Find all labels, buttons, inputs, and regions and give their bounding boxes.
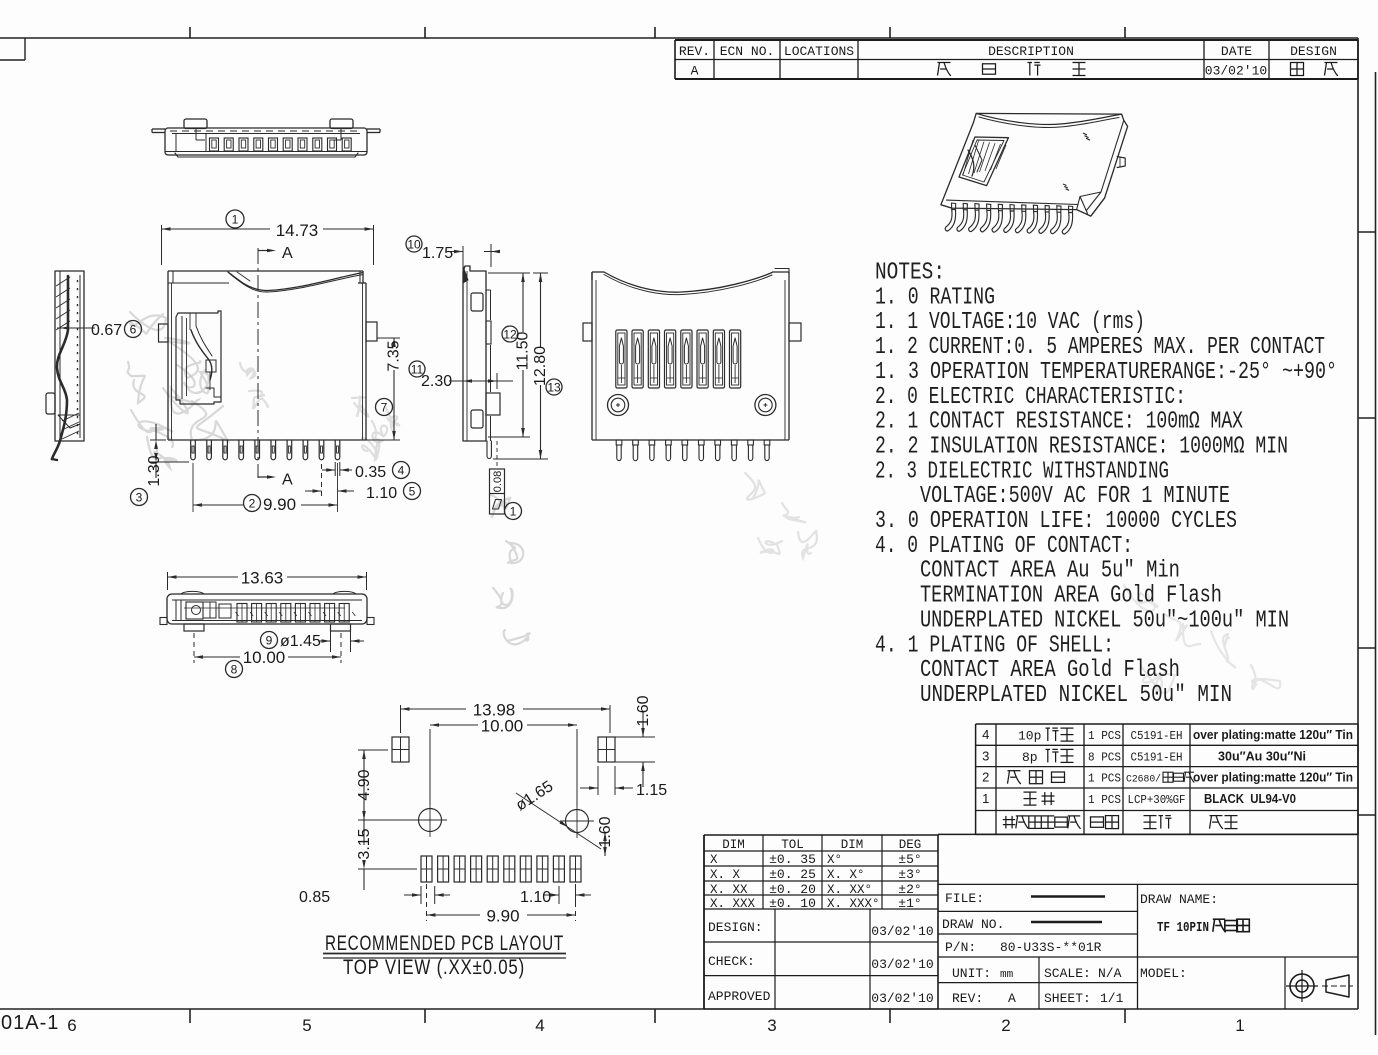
svg-text:03/02'10: 03/02'10 <box>871 957 933 972</box>
svg-text:1.10: 1.10 <box>366 485 397 502</box>
svg-text:SHEET:: SHEET: <box>1044 991 1091 1006</box>
svg-text:10.00: 10.00 <box>481 717 524 736</box>
svg-text:C2680/: C2680/ <box>1126 774 1161 786</box>
svg-text:±0. 25: ±0. 25 <box>769 867 816 882</box>
svg-text:8p: 8p <box>1022 750 1038 765</box>
svg-text:7: 7 <box>381 400 388 414</box>
svg-text:03/02'10: 03/02'10 <box>871 991 933 1006</box>
svg-text:7.35: 7.35 <box>386 340 403 371</box>
svg-text:2. 2 INSULATION RESISTANCE: 10: 2. 2 INSULATION RESISTANCE: 1000MΩ MIN <box>875 433 1288 460</box>
svg-text:0.67: 0.67 <box>91 322 122 339</box>
svg-text:2: 2 <box>1001 1016 1010 1035</box>
svg-text:6: 6 <box>130 322 137 336</box>
svg-text:13.63: 13.63 <box>241 569 284 588</box>
svg-text:9: 9 <box>266 633 273 647</box>
svg-text:8 PCS: 8 PCS <box>1088 750 1121 764</box>
svg-text:CONTACT AREA Gold Flash: CONTACT AREA Gold Flash <box>920 657 1180 684</box>
svg-text:3: 3 <box>136 490 143 504</box>
svg-text:80-U33S-**01R: 80-U33S-**01R <box>1000 940 1102 955</box>
svg-text:30u″Au 30u″Ni: 30u″Au 30u″Ni <box>1218 749 1306 763</box>
svg-text:1: 1 <box>510 504 517 518</box>
svg-text:1. 3 OPERATION TEMPERATURERANG: 1. 3 OPERATION TEMPERATURERANGE:-25° ~+9… <box>875 358 1337 385</box>
svg-text:2. 0 ELECTRIC CHARACTERISTIC:: 2. 0 ELECTRIC CHARACTERISTIC: <box>875 383 1186 410</box>
svg-text:X. X: X. X <box>710 868 741 882</box>
svg-text:1.10: 1.10 <box>520 889 551 906</box>
svg-text:4: 4 <box>398 463 405 477</box>
svg-text:UNDERPLATED NICKEL 50u″ MIN: UNDERPLATED NICKEL 50u″ MIN <box>920 682 1232 709</box>
svg-text:REV.: REV. <box>679 44 710 59</box>
svg-text:1 PCS: 1 PCS <box>1088 793 1121 807</box>
svg-text:1. 2 CURRENT:0. 5 AMPERES MAX.: 1. 2 CURRENT:0. 5 AMPERES MAX. PER CONTA… <box>875 334 1325 361</box>
svg-text:±0. 20: ±0. 20 <box>769 882 816 897</box>
svg-text:UNDERPLATED NICKEL 50u″~100u″: UNDERPLATED NICKEL 50u″~100u″ MIN <box>920 607 1289 634</box>
svg-text:1: 1 <box>982 791 989 806</box>
svg-text:1: 1 <box>232 212 239 226</box>
svg-text:X°: X° <box>827 853 842 867</box>
svg-text:03/02'10: 03/02'10 <box>1205 64 1267 79</box>
svg-text:RECOMMENDED PCB LAYOUT: RECOMMENDED PCB LAYOUT <box>325 932 564 955</box>
svg-text:3.15: 3.15 <box>356 828 373 859</box>
svg-text:1/1: 1/1 <box>1100 991 1124 1006</box>
svg-text:2. 1 CONTACT RESISTANCE: 100mΩ: 2. 1 CONTACT RESISTANCE: 100mΩ MAX <box>875 408 1243 435</box>
svg-text:X. X°: X. X° <box>827 868 865 882</box>
svg-text:1 PCS: 1 PCS <box>1088 772 1121 786</box>
svg-text:9.90: 9.90 <box>486 907 519 926</box>
svg-text:14.73: 14.73 <box>276 221 319 240</box>
svg-text:4. 1 PLATING OF SHELL:: 4. 1 PLATING OF SHELL: <box>875 632 1114 659</box>
svg-text:LOCATIONS: LOCATIONS <box>784 44 854 59</box>
svg-text:UNIT:: UNIT: <box>952 966 991 981</box>
svg-text:1.75: 1.75 <box>422 245 453 262</box>
svg-text:A: A <box>282 472 293 489</box>
svg-text:4.90: 4.90 <box>356 769 373 800</box>
svg-text:1.60: 1.60 <box>597 816 614 847</box>
svg-text:DESIGN:: DESIGN: <box>708 920 763 935</box>
svg-text:X. XX°: X. XX° <box>827 883 872 897</box>
svg-text:over plating:matte 120u″ Tin: over plating:matte 120u″ Tin <box>1193 771 1353 785</box>
svg-text:VOLTAGE:500V AC FOR 1 MINUTE: VOLTAGE:500V AC FOR 1 MINUTE <box>920 483 1230 510</box>
svg-text:2.30: 2.30 <box>421 373 452 390</box>
svg-text:0.85: 0.85 <box>299 889 330 906</box>
svg-text:1: 1 <box>1235 1016 1244 1035</box>
svg-text:CHECK:: CHECK: <box>708 954 755 969</box>
svg-text:over plating:matte 120u″ Tin: over plating:matte 120u″ Tin <box>1193 728 1353 742</box>
svg-text:C5191-EH: C5191-EH <box>1131 750 1183 764</box>
svg-text:DIM: DIM <box>722 838 745 852</box>
svg-text:DIM: DIM <box>841 838 864 852</box>
svg-text:X: X <box>710 853 718 867</box>
svg-text:11.50: 11.50 <box>515 331 532 370</box>
svg-text:6: 6 <box>67 1016 76 1035</box>
svg-text:4: 4 <box>535 1016 544 1035</box>
svg-text:LCP+30%GF: LCP+30%GF <box>1128 793 1186 807</box>
svg-text:±1°: ±1° <box>898 896 921 911</box>
svg-text:TF 10PIN: TF 10PIN <box>1157 920 1209 936</box>
svg-text:13: 13 <box>547 380 561 394</box>
svg-text:1.30: 1.30 <box>146 455 163 486</box>
svg-text:8: 8 <box>231 662 238 676</box>
svg-text:TOL: TOL <box>781 838 804 852</box>
svg-text:P/N:: P/N: <box>945 940 976 955</box>
svg-text:3: 3 <box>982 748 989 763</box>
svg-text:mm: mm <box>1000 969 1014 981</box>
svg-text:X. XXX: X. XXX <box>710 897 756 911</box>
svg-text:3. 0 OPERATION LIFE: 10000 CYC: 3. 0 OPERATION LIFE: 10000 CYCLES <box>875 508 1237 535</box>
svg-text:10: 10 <box>407 237 421 251</box>
svg-text:A: A <box>691 64 699 79</box>
svg-text:X. XXX°: X. XXX° <box>827 897 880 911</box>
svg-text:BLACK UL94-V0: BLACK UL94-V0 <box>1204 792 1296 806</box>
svg-text:10.00: 10.00 <box>243 648 286 667</box>
svg-text:A: A <box>1008 991 1016 1006</box>
svg-text:DESIGN: DESIGN <box>1290 44 1337 59</box>
svg-text:CONTACT AREA Au 5u″ Min: CONTACT AREA Au 5u″ Min <box>920 557 1180 584</box>
svg-text:FILE:: FILE: <box>945 891 984 906</box>
svg-text:03/02'10: 03/02'10 <box>871 924 933 939</box>
svg-text:2: 2 <box>249 496 256 510</box>
svg-text:4: 4 <box>982 727 989 742</box>
svg-text:9.90: 9.90 <box>263 495 296 514</box>
svg-text:2: 2 <box>982 770 989 785</box>
svg-text:DEG: DEG <box>899 838 922 852</box>
svg-text:DESCRIPTION: DESCRIPTION <box>988 44 1074 59</box>
svg-text:C5191-EH: C5191-EH <box>1131 729 1183 743</box>
svg-text:0.35: 0.35 <box>355 464 386 481</box>
svg-text:X. XX: X. XX <box>710 883 748 897</box>
svg-text:NOTES:: NOTES: <box>875 259 945 286</box>
svg-text:DRAW NO.: DRAW NO. <box>942 917 1004 932</box>
svg-text:2. 3 DIELECTRIC WITHSTANDING: 2. 3 DIELECTRIC WITHSTANDING <box>875 458 1169 485</box>
svg-text:DATE: DATE <box>1221 44 1252 59</box>
svg-text:10p: 10p <box>1018 729 1041 744</box>
svg-text:SCALE:: SCALE: <box>1044 966 1091 981</box>
svg-text:A: A <box>282 245 293 262</box>
svg-text:4. 0 PLATING OF CONTACT:: 4. 0 PLATING OF CONTACT: <box>875 532 1133 559</box>
svg-text:REV:: REV: <box>952 991 983 1006</box>
svg-text:DRAW NAME:: DRAW NAME: <box>1140 892 1218 907</box>
svg-text:TERMINATION AREA Gold Flash: TERMINATION AREA Gold Flash <box>920 582 1222 609</box>
svg-text:1 PCS: 1 PCS <box>1088 729 1121 743</box>
svg-text:±0. 35: ±0. 35 <box>769 852 816 867</box>
svg-text:01A-1: 01A-1 <box>1 1012 59 1034</box>
svg-text:±3°: ±3° <box>898 867 921 882</box>
svg-text:1.60: 1.60 <box>635 695 652 726</box>
svg-text:ECN NO.: ECN NO. <box>720 44 775 59</box>
svg-text:APPROVED: APPROVED <box>708 989 771 1004</box>
svg-text:1. 0 RATING: 1. 0 RATING <box>875 284 995 311</box>
svg-text:±2°: ±2° <box>898 882 921 897</box>
svg-text:1.15: 1.15 <box>636 782 667 799</box>
svg-text:5: 5 <box>302 1016 311 1035</box>
svg-text:3: 3 <box>767 1016 776 1035</box>
svg-text:ø1.45: ø1.45 <box>280 633 321 650</box>
svg-text:MODEL:: MODEL: <box>1140 966 1187 981</box>
svg-text:5: 5 <box>409 484 416 498</box>
svg-text:±0. 10: ±0. 10 <box>769 896 816 911</box>
svg-text:0.08: 0.08 <box>492 471 504 492</box>
svg-text:±5°: ±5° <box>898 852 921 867</box>
svg-text:TOP VIEW (.XX±0.05): TOP VIEW (.XX±0.05) <box>343 956 525 979</box>
svg-text:1. 1 VOLTAGE:10 VAC (rms): 1. 1 VOLTAGE:10 VAC (rms) <box>875 309 1145 336</box>
svg-text:N/A: N/A <box>1098 966 1122 981</box>
